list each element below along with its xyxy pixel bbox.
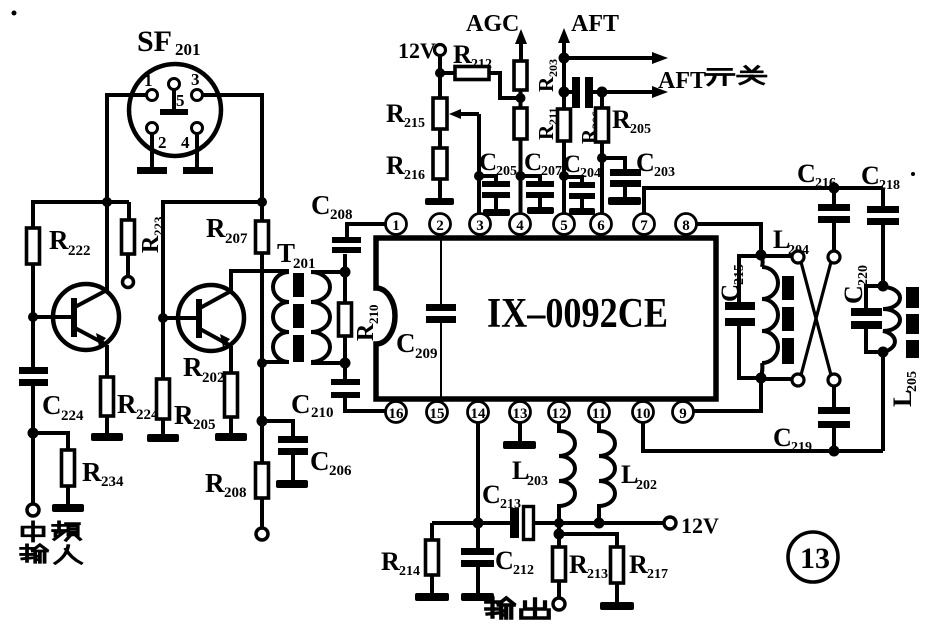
svg-text:201: 201: [175, 40, 201, 59]
wire R224 to ground: [105, 416, 109, 434]
IF input Chinese text 中频输入: [21, 522, 81, 563]
svg-text:205: 205: [496, 164, 517, 179]
R216 label: [386, 151, 425, 183]
pin 6: [591, 214, 612, 239]
C207 label: [524, 149, 562, 179]
C216 label: [797, 159, 836, 191]
wire R215 wiper down to pin 3: [477, 114, 481, 213]
svg-text:210: 210: [366, 305, 381, 325]
ground R214: [415, 593, 449, 601]
svg-text:R: R: [183, 352, 203, 382]
C204 label: [563, 151, 601, 181]
svg-text:234: 234: [101, 474, 124, 490]
svg-text:205: 205: [193, 417, 216, 433]
scan speck right: [911, 172, 915, 176]
wire R211 down to pin 4: [519, 139, 523, 213]
svg-text:AGC: AGC: [466, 11, 519, 37]
svg-text:14: 14: [471, 406, 487, 422]
node C205 tap: [474, 171, 484, 181]
svg-text:215: 215: [732, 264, 747, 285]
resistor R222: [27, 228, 40, 264]
svg-text:R: R: [569, 550, 588, 579]
node L204 bottom: [756, 373, 767, 384]
svg-text:C: C: [524, 149, 542, 176]
resistor R205 (bias lower): [157, 379, 170, 419]
T201 core: [293, 273, 304, 362]
wire R222 bottom to base node: [31, 264, 35, 317]
R203 label rotated: [534, 59, 560, 92]
crossover terminal BR: [828, 374, 840, 386]
resistor R234: [62, 450, 75, 486]
SF201 pin 2 ground: [137, 133, 167, 174]
capacitor C220: [851, 286, 883, 352]
svg-text:9: 9: [679, 406, 687, 422]
node L202 bottom: [594, 518, 605, 529]
wire AFT switch line 1 with arrow: [564, 52, 668, 64]
wire node down to R208: [260, 421, 264, 463]
wire pin14 down: [476, 423, 480, 524]
terminal 12V bottom: [664, 517, 676, 529]
node junction rail/collector: [102, 197, 112, 207]
wire rail to base vertical: [163, 200, 262, 204]
scan speck top left: [12, 11, 17, 16]
resistor R214: [426, 540, 439, 575]
ground C205: [483, 209, 510, 216]
wire R205 to ground: [161, 419, 165, 435]
capacitor C213 series: [510, 507, 534, 540]
node pin4 column feed: [516, 93, 526, 103]
node L204 top: [756, 250, 767, 261]
IC text IX-0092CE: [487, 291, 668, 337]
transformer T201 primary coil: [262, 272, 289, 362]
L202 label: [621, 460, 657, 493]
wire L203 bottom to R213: [557, 523, 561, 547]
svg-text:213: 213: [587, 567, 608, 582]
resistor R205: [596, 92, 609, 213]
terminal R208 bottom: [256, 528, 268, 540]
ground R224: [91, 433, 123, 441]
ground C206: [276, 480, 308, 488]
svg-text:4: 4: [516, 218, 524, 234]
svg-text:210: 210: [311, 405, 334, 421]
node R212 tap: [435, 68, 445, 78]
resistor R208: [256, 463, 269, 498]
svg-text:1: 1: [144, 71, 153, 90]
R213 label: [569, 550, 608, 582]
svg-text:11: 11: [592, 406, 606, 422]
svg-text:12V: 12V: [681, 513, 719, 538]
svg-text:208: 208: [224, 485, 247, 501]
crossover terminal TR: [828, 251, 840, 263]
wire R234 to ground: [66, 486, 70, 505]
wire left end to R214: [430, 523, 434, 540]
C210 label: [291, 389, 334, 421]
svg-text:202: 202: [636, 478, 657, 493]
svg-text:6: 6: [597, 218, 605, 234]
ground R216: [425, 198, 454, 205]
svg-text:R: R: [82, 457, 102, 487]
terminal IF input: [27, 504, 39, 516]
SF201 pin 5 ground: [160, 89, 188, 115]
svg-text:C: C: [396, 328, 416, 358]
R205 bias label: [174, 400, 216, 433]
L204 label: [773, 225, 809, 258]
svg-text:8: 8: [682, 218, 690, 234]
wire R216 to ground: [438, 179, 442, 199]
capacitor AFT coupling: [564, 77, 602, 108]
C213 label: [482, 480, 521, 512]
wire R215 to R216: [438, 129, 442, 148]
svg-text:222: 222: [68, 243, 91, 259]
node coupling cap tap: [559, 87, 570, 98]
pin 5: [554, 214, 575, 239]
wire Q2 collector up and right to T201 primary: [231, 271, 289, 291]
ground C204: [569, 208, 595, 215]
R215 label: [386, 99, 425, 131]
svg-text:207: 207: [225, 231, 248, 247]
svg-text:R: R: [353, 323, 379, 341]
wire C206 branch: [262, 421, 293, 437]
wire AFT vertical: [562, 58, 566, 213]
svg-text:C: C: [482, 480, 501, 509]
R212 label: [453, 40, 492, 72]
ground R217: [600, 602, 634, 610]
AFT arrow: [558, 28, 570, 60]
C218 label: [861, 161, 900, 193]
node Q1 base: [28, 312, 38, 322]
wire pin9 to tank bottom: [694, 378, 762, 411]
svg-text:4: 4: [181, 133, 190, 152]
SF201 pin 3: [192, 90, 203, 101]
svg-text:C: C: [773, 423, 792, 452]
R208 label: [205, 468, 247, 501]
svg-text:R: R: [386, 151, 405, 180]
resistor R213: [553, 547, 566, 581]
R202 label: [183, 352, 225, 386]
svg-text:203: 203: [527, 474, 548, 489]
node C203 tap: [597, 153, 607, 163]
svg-text:15: 15: [430, 406, 445, 422]
SF201 pin 2: [147, 123, 158, 134]
ground R202: [215, 433, 247, 441]
wire to R212: [440, 71, 455, 75]
inductor L205 coil: [883, 287, 900, 352]
node Q2 base: [158, 313, 168, 323]
SF201 pin number labels: [144, 70, 200, 152]
L204 core: [782, 276, 794, 364]
SF201 pin 4: [192, 123, 203, 134]
svg-text:214: 214: [399, 564, 420, 579]
capacitor C207: [520, 176, 554, 208]
ground R234: [52, 504, 84, 512]
pin number texts: [389, 218, 690, 422]
svg-text:R: R: [534, 124, 558, 140]
wire base node to Q2 base bar: [163, 316, 197, 320]
wire SF201 pin1 to Q1 collector rail: [107, 95, 147, 290]
svg-text:16: 16: [389, 406, 405, 422]
AFT label: [571, 11, 619, 37]
svg-text:R: R: [534, 76, 558, 92]
svg-text:R: R: [453, 40, 472, 69]
wire node to input terminal: [31, 433, 35, 505]
svg-text:C: C: [42, 390, 62, 420]
wire R202 to ground: [229, 417, 233, 434]
C215 label rotated: [717, 264, 747, 302]
pin 12: [549, 399, 570, 423]
svg-text:12V: 12V: [398, 38, 436, 63]
wire base node to Q1 base: [33, 315, 72, 319]
svg-text:C: C: [291, 389, 311, 419]
pin 13: [510, 399, 531, 423]
capacitor C210: [331, 363, 385, 411]
svg-text:13: 13: [800, 542, 830, 575]
node pin14 bottom: [473, 518, 484, 529]
wire tank bottom to bottom bus: [881, 352, 885, 451]
svg-text:217: 217: [647, 567, 668, 582]
C206 label: [310, 446, 352, 479]
inductor L204 coil: [761, 256, 778, 378]
terminal 12V top: [435, 45, 446, 56]
SF201 pin 5: [169, 79, 180, 90]
svg-text:C: C: [797, 159, 816, 188]
C212 label: [495, 546, 534, 578]
wire pin7 up and right top bus: [644, 188, 883, 213]
output Chinese text 输出: [486, 598, 549, 618]
svg-text:R: R: [49, 225, 69, 255]
resistor R207: [256, 202, 269, 253]
T201 label: [277, 238, 316, 272]
wire main bottom line right part: [534, 521, 664, 525]
svg-text:207: 207: [541, 164, 562, 179]
wire Q2 emitter down to R202: [229, 346, 233, 373]
ground R205: [147, 434, 179, 442]
node C204 tap: [559, 171, 569, 181]
svg-text:C: C: [636, 148, 655, 177]
svg-text:2: 2: [436, 218, 444, 234]
wire AFT switch line 2 with arrow: [602, 86, 668, 98]
C203 label: [636, 148, 675, 180]
terminal output: [553, 598, 565, 610]
12V label bottom: [681, 513, 719, 538]
R207 label: [206, 213, 248, 247]
SF201 pin 4 ground: [183, 133, 213, 174]
wire main bottom line left part: [432, 521, 511, 525]
node AFT switch tap1: [559, 53, 570, 64]
wire top rail left section: [33, 200, 129, 204]
resistor R224: [101, 377, 114, 416]
R214 label: [381, 547, 420, 579]
ground C203: [608, 197, 641, 205]
svg-text:C: C: [479, 149, 497, 176]
ground C207: [527, 207, 554, 214]
crossover terminal BL: [792, 374, 804, 386]
resistor R203: [514, 61, 527, 90]
pin 2: [430, 214, 451, 239]
pin 15: [427, 399, 448, 423]
svg-text:C: C: [839, 285, 868, 304]
C205 label: [479, 149, 517, 179]
figure number circled 13: [788, 532, 838, 582]
svg-text:R: R: [174, 400, 194, 430]
node T201 primary bottom: [257, 358, 267, 368]
svg-text:C: C: [310, 446, 330, 476]
inductor L202 coil: [599, 423, 615, 524]
svg-text:224: 224: [61, 408, 84, 424]
pin 7: [634, 214, 655, 239]
R211 label rotated: [534, 108, 560, 140]
capacitor C203: [602, 158, 641, 198]
pin 3: [470, 214, 491, 239]
C219 label: [773, 423, 812, 455]
node L203 bottom junction: [554, 518, 564, 528]
wire BR down to C219: [832, 386, 836, 408]
capacitor C216: [818, 188, 850, 252]
pin 4: [510, 214, 531, 239]
svg-text:C: C: [311, 190, 331, 220]
crossover terminal TL: [792, 251, 804, 263]
pin 16: [386, 399, 407, 423]
SF201 pin 1: [147, 90, 158, 101]
svg-text:C: C: [495, 546, 514, 575]
pin 10: [633, 399, 654, 423]
svg-text:C: C: [717, 284, 744, 302]
wire R203 to R211: [519, 90, 523, 108]
pin 8: [676, 214, 697, 239]
wire R217 to ground: [615, 583, 619, 603]
svg-text:5: 5: [560, 218, 568, 234]
node R207 top: [257, 197, 267, 207]
resistor R211: [514, 108, 527, 139]
svg-text:2: 2: [158, 133, 167, 152]
node C219 bottom: [829, 446, 840, 457]
svg-text:205: 205: [905, 371, 920, 392]
capacitor C224: [19, 367, 48, 386]
figure 13 text: [800, 542, 830, 575]
svg-text:3: 3: [191, 70, 200, 89]
capacitor C212: [461, 523, 494, 594]
svg-text:C: C: [563, 151, 581, 178]
wire base node down to C224: [31, 317, 35, 368]
wire R212 to pin4 column node: [489, 73, 516, 98]
AGC label: [466, 11, 519, 37]
capacitor C215: [725, 256, 761, 378]
svg-text:5: 5: [176, 91, 185, 110]
svg-text:215: 215: [404, 116, 425, 131]
wire Q1 emitter down to R224: [105, 345, 109, 377]
svg-text:R: R: [117, 389, 137, 419]
svg-text:216: 216: [404, 168, 425, 183]
wire node to R234: [33, 433, 68, 450]
svg-text:12: 12: [552, 406, 567, 422]
wire C206 to ground: [291, 455, 295, 481]
R205 label: [612, 105, 651, 137]
svg-text:SF: SF: [137, 25, 172, 58]
resistor R202: [225, 373, 238, 417]
resistor R206: [558, 109, 571, 141]
transformer T201 secondary coil: [311, 272, 345, 363]
node C220 tank bottom: [878, 347, 889, 358]
wire pin10 down and right bottom bus: [643, 423, 883, 452]
node secondary bottom: [340, 358, 351, 369]
svg-text:204: 204: [580, 166, 601, 181]
svg-text:R: R: [381, 547, 400, 576]
svg-text:208: 208: [330, 207, 353, 223]
svg-text:1: 1: [392, 218, 400, 234]
wire R208 to terminal: [260, 498, 264, 528]
svg-text:IX–0092CE: IX–0092CE: [487, 291, 668, 337]
wire tank top to crossover TL: [761, 254, 792, 258]
wire pin8 to L204 tank top: [697, 224, 762, 255]
resistor R223: [122, 202, 135, 277]
R224 label: [117, 389, 159, 423]
svg-text:13: 13: [513, 406, 528, 422]
terminal R223 bottom: [123, 277, 134, 288]
svg-text:201: 201: [293, 256, 316, 272]
node input branch: [28, 428, 39, 439]
resistor R212 horizontal: [455, 67, 489, 80]
wire tank bottom to crossover BL: [761, 377, 792, 381]
node secondary top: [340, 267, 351, 278]
C224 label: [42, 390, 84, 424]
svg-text:R: R: [629, 550, 648, 579]
R217 label: [629, 550, 668, 582]
pin 14: [468, 399, 489, 423]
svg-text:R: R: [386, 99, 405, 128]
SF201 label: [137, 25, 201, 59]
svg-text:212: 212: [471, 57, 492, 72]
svg-text:203: 203: [546, 59, 560, 77]
svg-text:7: 7: [640, 218, 648, 234]
capacitor C206: [278, 436, 308, 455]
svg-text:3: 3: [476, 218, 484, 234]
svg-text:205: 205: [630, 122, 651, 137]
node C216 top: [829, 183, 840, 194]
wire SF201 pin3 right and down to R207 top: [203, 95, 263, 202]
wire link to R217: [559, 534, 617, 547]
pin 11: [589, 399, 610, 423]
L203 label: [512, 456, 548, 489]
L205 label rotated: [888, 371, 920, 407]
node R213 R217 link: [554, 529, 565, 540]
wire C224 bottom to lower node: [31, 386, 35, 433]
C208 label: [311, 190, 353, 223]
capacitor C219: [818, 407, 850, 451]
AGC arrow: [515, 29, 527, 61]
C209 label: [396, 328, 438, 362]
R222 label: [49, 225, 91, 259]
svg-text:213: 213: [500, 497, 521, 512]
pin 9: [673, 399, 694, 423]
resistor R217: [611, 547, 624, 583]
resistor R216: [433, 148, 447, 179]
svg-text:212: 212: [513, 563, 534, 578]
svg-text:10: 10: [636, 406, 651, 422]
wire R214 to ground: [430, 575, 434, 594]
svg-text:R: R: [138, 235, 164, 253]
potentiometer R215: [433, 98, 479, 129]
node C220 tank top: [878, 281, 889, 292]
capacitor C204: [564, 177, 595, 209]
C220 label rotated: [839, 265, 871, 304]
svg-text:R: R: [612, 105, 631, 134]
svg-text:C: C: [861, 161, 880, 190]
L205 core: [906, 287, 919, 358]
R206 label rotated: [577, 111, 603, 144]
wire R213 to output terminal: [557, 581, 561, 599]
svg-text:R: R: [206, 213, 226, 243]
node C206 branch: [257, 416, 268, 427]
wire crossover X lines: [801, 262, 831, 375]
